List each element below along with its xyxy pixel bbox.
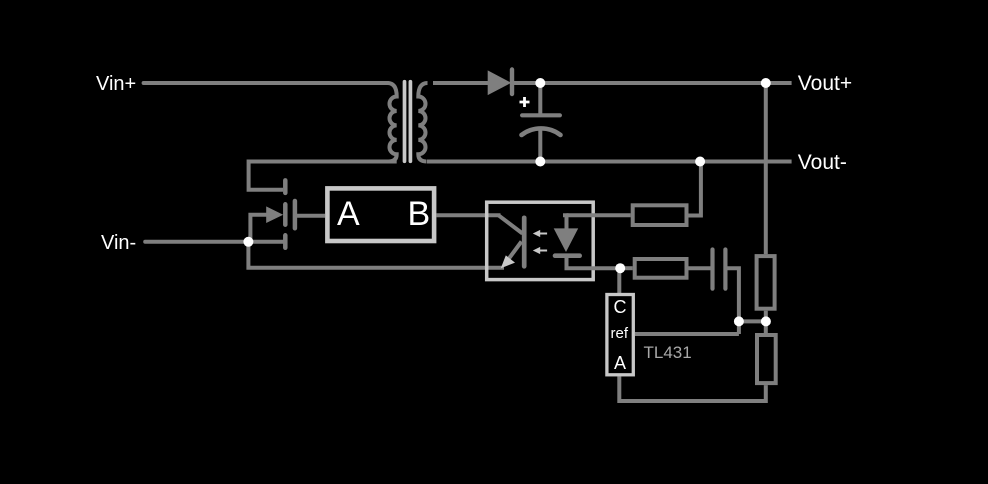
optocoupler U2 light arrow lower <box>533 247 547 254</box>
wire TL431 ref to divider <box>635 332 739 336</box>
capacitor C2 left plate <box>710 250 714 289</box>
transformer T1 primary winding <box>388 83 397 162</box>
wire cap top lead <box>538 83 542 114</box>
svg-text:ref: ref <box>611 325 629 342</box>
wire body arrow to Vin- node <box>250 215 270 242</box>
wire primary bottom to MOSFET drain <box>249 162 397 190</box>
svg-text:Vin-: Vin- <box>101 232 136 254</box>
optocoupler U2 LED cathode bar <box>555 253 580 258</box>
wire gate to controller A <box>297 214 325 218</box>
wire Vout- rail <box>427 160 792 164</box>
resistor R4 <box>757 335 776 383</box>
diode D1 cathode bar <box>510 70 514 95</box>
svg-text:Vout-: Vout- <box>798 151 847 174</box>
node TL431 cathode junction <box>615 263 625 273</box>
node Vin- junction <box>243 237 253 247</box>
wire R2 to compensation cap <box>689 266 711 270</box>
svg-text:Vout+: Vout+ <box>798 72 852 95</box>
optocoupler U2 phototransistor emitter lead <box>505 242 522 265</box>
node Vout- R1 branch <box>695 157 705 167</box>
capacitor C1 plus sign <box>520 97 530 107</box>
capacitor C1 curved bottom plate <box>522 128 561 135</box>
optocoupler U2 emitter arrowhead <box>501 255 515 268</box>
node ref junction <box>734 316 744 326</box>
optocoupler U2 LED anode lead <box>563 215 567 229</box>
wire node to R2 <box>620 266 633 270</box>
TL431 U3 box <box>607 295 633 375</box>
transistor Q1 body arrow <box>266 206 283 223</box>
wire diode to Vout+ <box>512 81 792 85</box>
wire LED cathode to TL431 cathode node <box>567 256 621 269</box>
optocoupler U2 phototransistor collector lead <box>499 215 523 233</box>
wire TL431 cathode lead <box>617 268 621 293</box>
node Vout+ divider branch <box>761 78 771 88</box>
wire TL431 anode to bottom rail <box>619 377 766 402</box>
wire Vout+ down to R3 <box>764 83 768 254</box>
wire R1 to Vout- rail <box>689 162 701 216</box>
svg-text:A: A <box>337 195 360 233</box>
svg-text:Vin+: Vin+ <box>96 73 136 95</box>
wire LED anode through R1 <box>567 213 631 217</box>
transistor Q1 channel bar drain segment <box>283 180 288 193</box>
capacitor C1 top plate <box>522 113 560 117</box>
wire ref node to divider midpoint <box>739 319 766 323</box>
optocoupler U2 box <box>487 202 594 279</box>
transistor Q1 channel bar body segment <box>283 204 288 224</box>
wire controller B to optocoupler collector <box>436 213 500 217</box>
transistor Q1 gate bar <box>293 201 298 228</box>
wire ground return loop to opto emitter <box>248 242 504 268</box>
capacitor C2 right plate <box>723 250 727 289</box>
wire Vin+ to transformer primary top <box>144 81 388 85</box>
optocoupler U2 LED triangle <box>554 228 579 252</box>
wire transformer secondary top to diode <box>433 81 489 85</box>
controller U1 box <box>327 188 434 241</box>
resistor R1 <box>633 205 687 225</box>
transformer T1 core bar left <box>403 82 407 162</box>
resistor R3 <box>757 256 775 309</box>
svg-text:TL431: TL431 <box>644 343 692 362</box>
wire cap to ref node <box>728 268 739 334</box>
node divider midpoint <box>761 316 771 326</box>
transformer T1 secondary winding <box>418 83 427 162</box>
node output cap bottom <box>535 157 545 167</box>
svg-text:C: C <box>614 297 627 317</box>
wire Vin- to source <box>145 240 283 244</box>
node output cap top <box>535 78 545 88</box>
optocoupler U2 light arrow upper <box>533 230 547 237</box>
transistor Q1 channel bar source segment <box>283 235 288 248</box>
resistor R2 <box>635 259 687 278</box>
wire R3 to R4 <box>764 311 768 333</box>
svg-text:A: A <box>614 353 626 373</box>
svg-text:B: B <box>408 195 431 233</box>
wire cap bottom lead <box>538 131 542 162</box>
diode D1 anode triangle <box>488 70 512 95</box>
transformer T1 core bar right <box>409 82 413 162</box>
optocoupler U2 phototransistor base bar <box>522 218 527 266</box>
